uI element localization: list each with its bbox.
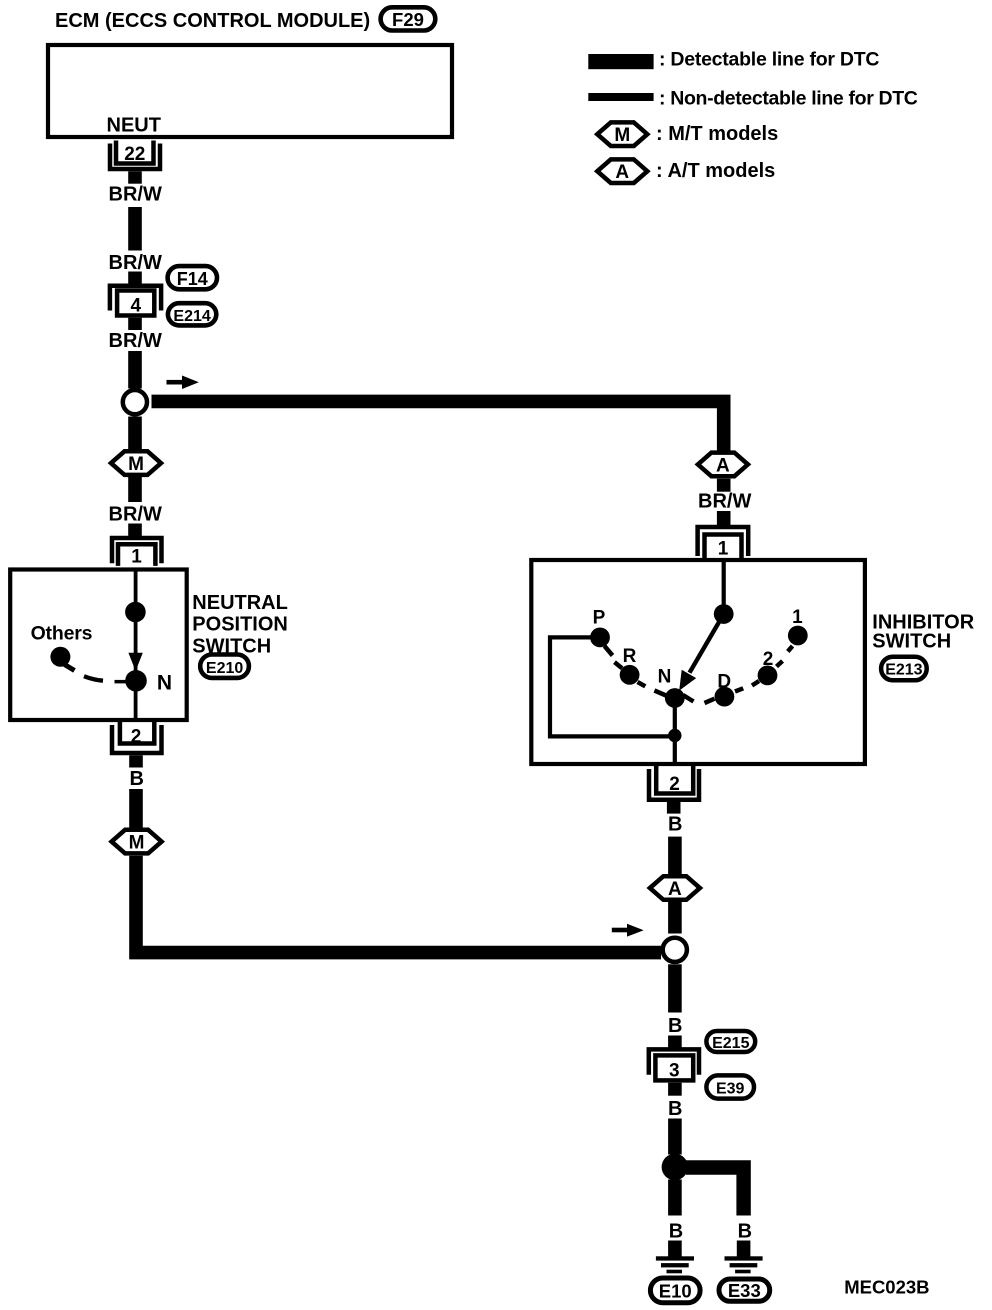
svg-text:D: D bbox=[717, 672, 731, 693]
svg-text:F14: F14 bbox=[177, 269, 208, 289]
M/T model marker hexagon bbox=[111, 451, 161, 475]
wire (detectable) bbox=[668, 837, 682, 875]
connector label F14 bbox=[168, 266, 217, 289]
svg-text:2: 2 bbox=[669, 774, 680, 795]
wire (detectable) bbox=[128, 351, 142, 389]
svg-text:2: 2 bbox=[763, 649, 774, 670]
svg-text:1: 1 bbox=[792, 607, 803, 628]
contact N lead bbox=[115, 680, 136, 684]
connector label E213 bbox=[881, 657, 927, 681]
inline connector junction pin 3 (E215/E39) bbox=[649, 1049, 699, 1081]
arrow (flow direction) bbox=[167, 376, 199, 390]
wire stub below hexagon bbox=[717, 479, 731, 492]
contact N lead dash bbox=[654, 691, 666, 696]
legend: non-detectable line sample bbox=[588, 93, 653, 101]
pin 1 terminal connector (inhibitor switch) bbox=[698, 527, 749, 560]
svg-text:E215: E215 bbox=[712, 1035, 749, 1052]
wire stub above inline connector 4 bbox=[128, 272, 142, 285]
svg-text:BR/W: BR/W bbox=[698, 491, 751, 513]
contact 1 bbox=[788, 626, 808, 646]
switch contact N bbox=[125, 670, 147, 692]
pin 1 terminal connector (neutral position switch) bbox=[112, 538, 162, 568]
switch contact Others bbox=[50, 647, 70, 667]
svg-text:E210: E210 bbox=[206, 660, 243, 677]
wire (detectable) bbox=[129, 789, 143, 828]
wire (detectable) to A/T branch bbox=[152, 395, 731, 451]
switch contact (common) bbox=[125, 602, 146, 623]
connector label E210 bbox=[200, 655, 249, 678]
legend: detectable line sample bbox=[588, 54, 653, 69]
ground symbol E10 bbox=[656, 1256, 694, 1273]
svg-text:P: P bbox=[593, 607, 606, 628]
pin 22 terminal connector bbox=[110, 141, 160, 170]
wire stub above inline connector 3 bbox=[668, 1036, 682, 1049]
svg-text:4: 4 bbox=[131, 296, 142, 317]
svg-text:MEC023B: MEC023B bbox=[844, 1276, 929, 1297]
svg-text:: M/T models: : M/T models bbox=[656, 123, 778, 145]
wire stub above pin 1 bbox=[717, 511, 731, 526]
svg-text:A: A bbox=[668, 879, 682, 900]
svg-text:Others: Others bbox=[31, 622, 93, 644]
contact 2 bbox=[758, 666, 778, 686]
svg-text:M: M bbox=[128, 454, 144, 475]
svg-text:N: N bbox=[658, 667, 672, 688]
wire (detectable) elbow to junction bbox=[129, 856, 661, 960]
connector label E214 bbox=[168, 303, 216, 325]
svg-text:BR/W: BR/W bbox=[109, 184, 162, 206]
wire stub below pin 22 bbox=[128, 171, 142, 183]
svg-text:BR/W: BR/W bbox=[109, 252, 162, 274]
svg-text:SWITCH: SWITCH bbox=[872, 631, 951, 653]
contact P branch wire bbox=[550, 637, 672, 736]
contact 1 tail dash bbox=[788, 646, 793, 652]
svg-text:F29: F29 bbox=[392, 9, 424, 30]
inhibitor switch box E213 bbox=[531, 560, 865, 764]
dash between N and D bbox=[683, 695, 694, 702]
svg-text:E10: E10 bbox=[659, 1280, 692, 1301]
neutral position switch box E210 bbox=[10, 570, 187, 721]
ground stub left bbox=[668, 1241, 682, 1258]
pivot feed wire bbox=[722, 562, 726, 614]
svg-text:A: A bbox=[615, 162, 629, 183]
legend A/T marker hexagon bbox=[597, 159, 647, 183]
svg-text:BR/W: BR/W bbox=[109, 504, 162, 526]
switch internal wire bbox=[134, 571, 138, 719]
contact Others tail bbox=[65, 665, 75, 671]
svg-text:M: M bbox=[614, 125, 630, 146]
junction node (M/T - A/T split) bbox=[123, 390, 147, 414]
inline connector junction pin 4 (F14/E214) bbox=[110, 286, 161, 317]
ground connector label E33 bbox=[719, 1279, 770, 1301]
selector arm with arrowhead bbox=[679, 614, 724, 691]
svg-text:3: 3 bbox=[669, 1061, 680, 1082]
svg-text:B: B bbox=[669, 1221, 683, 1243]
dashed travel arc bbox=[84, 676, 103, 681]
svg-text:ECM (ECCS CONTROL MODULE): ECM (ECCS CONTROL MODULE) bbox=[55, 10, 370, 32]
wire stub above pin 1 bbox=[128, 524, 142, 537]
ECM (ECCS control module) box bbox=[48, 45, 452, 137]
svg-text:NEUT: NEUT bbox=[107, 115, 161, 137]
contact D bbox=[715, 687, 735, 707]
legend M/T marker hexagon bbox=[597, 122, 647, 146]
pivot contact bbox=[714, 604, 734, 624]
wire (detectable) bbox=[668, 1180, 682, 1216]
svg-text:1: 1 bbox=[718, 539, 729, 560]
svg-text:1: 1 bbox=[131, 547, 142, 568]
wire (detectable) bbox=[668, 964, 682, 1012]
connector label F29 bbox=[381, 7, 436, 30]
junction dot bbox=[668, 729, 681, 742]
contact R tail dashes bbox=[615, 662, 646, 686]
pin 2 terminal connector (inhibitor switch) bbox=[649, 766, 699, 800]
svg-text:: Non-detectable line for DTC: : Non-detectable line for DTC bbox=[659, 87, 918, 109]
svg-text:B: B bbox=[130, 768, 144, 790]
wire stub below inline connector 3 bbox=[668, 1083, 682, 1096]
svg-text:BR/W: BR/W bbox=[109, 330, 162, 352]
svg-text:B: B bbox=[738, 1221, 752, 1243]
connector label E215 bbox=[706, 1031, 755, 1052]
contact N bbox=[665, 688, 685, 708]
wire (detectable) bbox=[668, 902, 682, 934]
contact P bbox=[590, 628, 610, 648]
A/T model marker hexagon bbox=[698, 453, 748, 477]
M/T model marker hexagon bbox=[112, 830, 162, 854]
junction node (M/T - A/T merge) bbox=[663, 938, 687, 962]
wire (detectable) bbox=[128, 207, 142, 251]
svg-text:B: B bbox=[668, 1098, 682, 1120]
wire stub below pin 2 bbox=[667, 802, 681, 814]
wire (detectable) bbox=[668, 1119, 682, 1155]
wire stub below pin 2 bbox=[129, 755, 143, 767]
svg-text:: A/T models: : A/T models bbox=[656, 160, 775, 182]
wire (detectable) bbox=[128, 476, 142, 502]
wire (detectable) bbox=[128, 417, 142, 451]
wire branch to E33 ground bbox=[686, 1160, 751, 1215]
svg-text:E214: E214 bbox=[173, 308, 210, 325]
svg-text:: Detectable line for DTC: : Detectable line for DTC bbox=[659, 48, 879, 70]
contact P tail dash bbox=[605, 646, 613, 656]
connector label E39 bbox=[706, 1075, 754, 1098]
output wire from N bbox=[673, 698, 677, 764]
svg-text:E33: E33 bbox=[728, 1280, 761, 1301]
pin 2 terminal connector (neutral position switch) bbox=[112, 722, 162, 753]
arrow (flow direction) bbox=[612, 924, 644, 937]
svg-text:NEUTRAL: NEUTRAL bbox=[192, 592, 288, 614]
contact R bbox=[620, 665, 640, 685]
svg-text:22: 22 bbox=[124, 144, 145, 165]
contact 2 tail dashes bbox=[752, 661, 783, 686]
svg-text:A: A bbox=[716, 455, 730, 476]
svg-text:2: 2 bbox=[131, 727, 142, 748]
svg-text:E213: E213 bbox=[885, 662, 922, 679]
switch arrow to N bbox=[128, 653, 142, 671]
svg-text:R: R bbox=[623, 646, 637, 667]
ground connector label E10 bbox=[650, 1278, 700, 1303]
ground symbol E33 bbox=[725, 1256, 763, 1273]
A/T model marker hexagon bbox=[650, 876, 700, 900]
svg-text:POSITION: POSITION bbox=[192, 614, 288, 636]
svg-text:E39: E39 bbox=[716, 1081, 745, 1098]
svg-text:N: N bbox=[157, 672, 172, 695]
ground stub right bbox=[737, 1241, 751, 1258]
svg-text:M: M bbox=[129, 833, 145, 854]
ground junction dot bbox=[662, 1154, 688, 1180]
contact D tail dashes bbox=[705, 688, 744, 703]
svg-text:B: B bbox=[668, 813, 682, 835]
svg-text:B: B bbox=[668, 1015, 682, 1037]
wire stub below inline connector 4 bbox=[128, 318, 142, 330]
